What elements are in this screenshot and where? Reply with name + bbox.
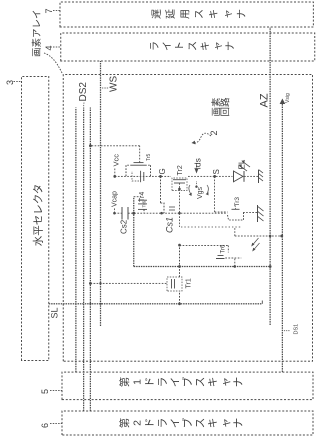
svg-text:7: 7 [44,8,54,13]
svg-text:Ids: Ids [193,158,203,169]
svg-text:AZ: AZ [259,93,271,107]
Cs column wire down to Tr3 and ground [128,212,228,214]
svg-text:6: 6 [40,423,50,428]
svg-text:第2ドライブスキャナ: 第2ドライブスキャナ [118,417,244,428]
heavy node wire [133,197,135,267]
transistor Tr6 [134,196,141,198]
svg-text:4: 4 [44,45,54,50]
node G [159,175,162,178]
node wire from G with jog to Cs column [160,176,162,203]
transistor Tr1 (sampling) [167,277,182,291]
svg-text:Cs2: Cs2 [120,219,129,234]
svg-text:Tr3: Tr3 [234,197,241,207]
Ids arrow [196,163,198,171]
block: first drive scanner 第1ドライブスキャナ [62,372,313,400]
node S [213,175,216,178]
scan line DS1 (from first drive scanner) [75,108,77,373]
Vcap stub and label [113,208,115,214]
write scan line WS [100,61,102,326]
hatch arrows near ground [253,238,260,250]
svg-text:Vgs: Vgs [197,186,204,199]
Tr2 gate wire to Cs column [178,183,180,213]
transistor Tr4 [132,171,139,181]
svg-text:G: G [158,168,167,174]
junction dot where branch crosses AZ [269,235,272,238]
Vcc supply stub [114,168,116,177]
capacitor Cs2 [114,212,122,214]
svg-text:S: S [212,169,221,174]
crossing blobs on SL line [89,303,91,305]
drive pulse line DS1 row (from first drive scanner) with arrow [281,104,283,372]
block: write scanner ライトスキャナ [61,33,315,61]
Tr3 ground [257,205,259,222]
transistor Tr6 (lower) [216,258,225,260]
svg-text:Vsig: Vsig [285,93,291,103]
leader from 画素アレイ to array corner [44,53,62,73]
svg-text:ライトスキャナ: ライトスキャナ [149,41,237,51]
block: second drive scanner 第2ドライブスキャナ [62,411,313,435]
transistor Tr2 (drive) [172,178,187,191]
S node wire to Tr3 [214,176,216,212]
svg-text:SL: SL [50,307,60,318]
svg-text:2: 2 [209,130,219,135]
scan line DS2 upper (from second drive scanner) [83,108,85,412]
signal line SL (from horizontal selector) [49,303,263,305]
svg-text:水平セレクタ: 水平セレクタ [33,184,45,247]
block: horizontal selector 水平セレクタ [22,77,49,361]
block: pixel array 画素アレイ [63,75,312,362]
junction dot at Vcap stub [113,212,116,215]
block: delay scanner 遅延用スキャナ [60,2,313,27]
svg-text:Tr6: Tr6 [221,244,227,253]
EL element (organic EL diode) [234,171,244,182]
EL emission arrows [240,162,251,172]
svg-text:画素アレイ: 画素アレイ [31,9,43,57]
svg-text:5: 5 [40,389,50,394]
svg-text:回路: 回路 [220,97,232,117]
transistor Tr5 [132,164,145,166]
scan line DS2 lower (from second drive scanner) [89,108,91,412]
transistor Tr3 [228,213,244,220]
branch down to DS1 row line [180,245,229,247]
svg-text:Tr1: Tr1 [186,278,193,288]
EL cathode ground [258,170,260,183]
svg-text:Cs1: Cs1 [165,217,175,233]
svg-text:遅延用スキャナ: 遅延用スキャナ [151,9,248,19]
svg-text:WS: WS [109,76,120,92]
svg-text:3: 3 [5,80,15,85]
Tr1 gate from DS2 lower tap [90,282,167,284]
svg-text:DS1: DS1 [294,324,300,335]
Tr1 source wire from SL [179,291,181,304]
Tr5 gate lead to DS2 lower line [139,146,141,163]
svg-text:Vcap: Vcap [112,191,119,207]
Tr1 drain wire [179,245,181,277]
svg-text:Vcc: Vcc [112,154,121,167]
svg-text:第1ドライブスキャナ: 第1ドライブスキャナ [118,376,244,387]
svg-text:Tr6: Tr6 [142,200,147,207]
wire from Cs1 node down to signal-drop [181,226,241,228]
svg-text:DS2: DS2 [78,82,89,102]
svg-text:Tr5: Tr5 [146,153,152,161]
main drive column wire (Vcc to EL) [115,175,171,177]
svg-text:Tr2: Tr2 [177,165,184,175]
auto-zero line AZ (from delay scanner) [269,27,271,325]
